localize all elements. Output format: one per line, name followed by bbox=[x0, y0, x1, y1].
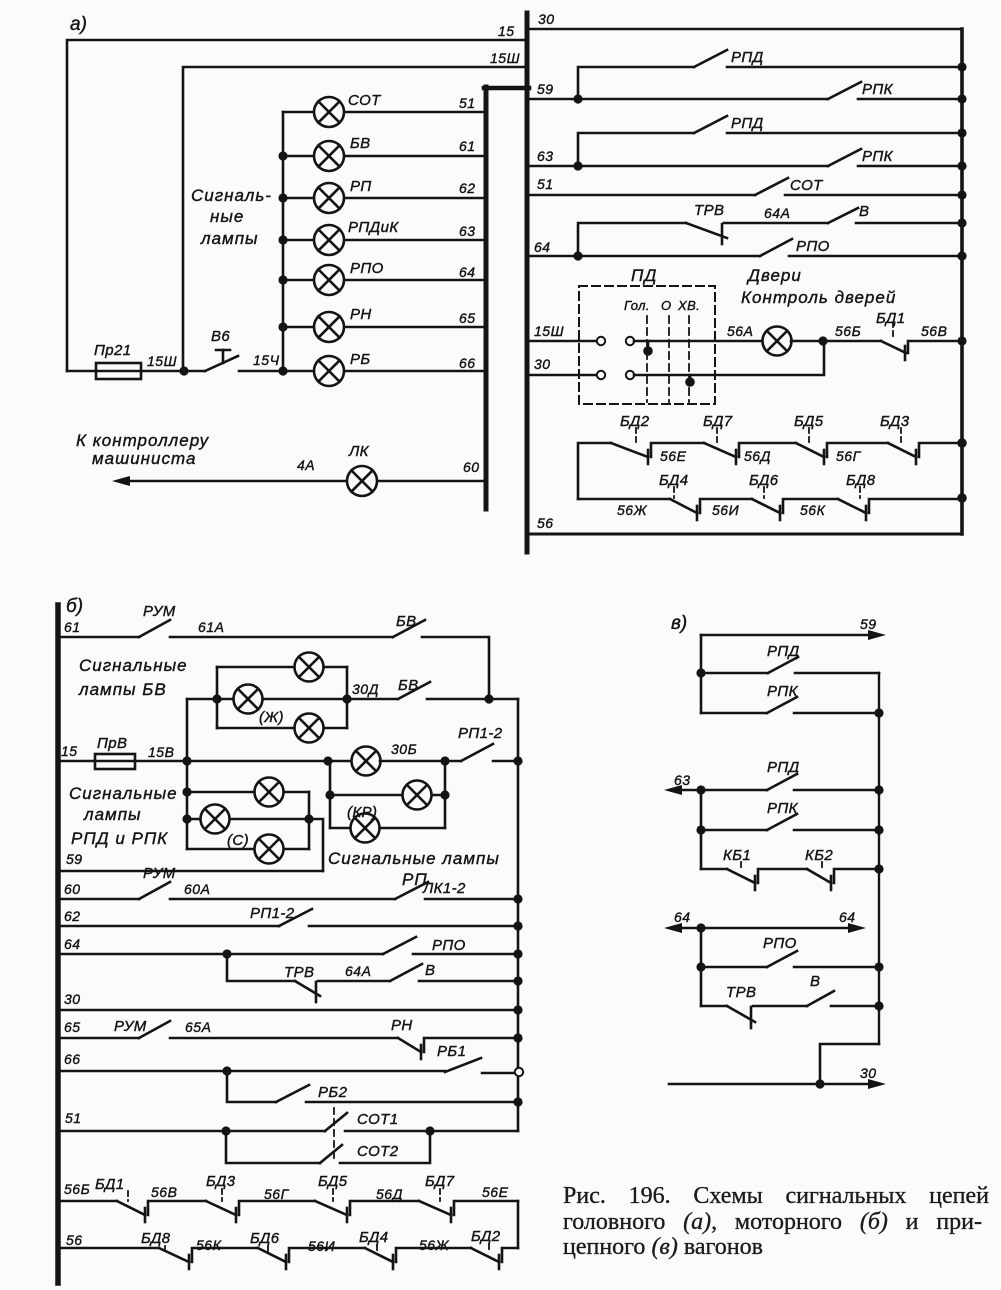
svg-text:62: 62 bbox=[459, 180, 476, 196]
svg-text:56Г: 56Г bbox=[836, 448, 862, 464]
contact БД7 blade bbox=[704, 443, 736, 457]
contact БД1 riser б bbox=[148, 1201, 206, 1215]
switch РПК blade bbox=[828, 82, 861, 99]
contact БД2 riser bbox=[502, 1248, 518, 1262]
wire РПД continuation 63 в bbox=[794, 789, 879, 792]
contact КБ2 blade bbox=[807, 869, 831, 883]
wire РП1-2 continuation bbox=[493, 760, 518, 763]
junction lamp bus row 65 bbox=[278, 322, 287, 331]
svg-text:БВ: БВ bbox=[350, 135, 371, 152]
wire lamp row 63 bbox=[283, 239, 486, 242]
junction rail 60 bbox=[513, 894, 522, 903]
right rail в bbox=[878, 673, 880, 1044]
switch РУМ blade 65 bbox=[139, 1021, 170, 1038]
svg-text:61: 61 bbox=[64, 619, 81, 635]
junction 63/РПД bbox=[573, 161, 582, 170]
lamp РП bbox=[314, 183, 344, 213]
leader БД6 bbox=[267, 1246, 269, 1253]
switch СОТ1 blade bbox=[325, 1113, 347, 1131]
switch В blade б bbox=[390, 964, 422, 981]
svg-text:СОТ2: СОТ2 bbox=[357, 1143, 399, 1160]
wire lamp row 62 bbox=[283, 197, 486, 200]
svg-text:РУМ: РУМ bbox=[143, 603, 176, 620]
svg-text:56А: 56А bbox=[727, 323, 753, 339]
svg-text:БД4: БД4 bbox=[359, 1229, 389, 1246]
contact ТРВ blade в bbox=[727, 1006, 755, 1022]
lamp С middle bbox=[201, 805, 230, 834]
svg-text:РПД: РПД bbox=[731, 115, 764, 132]
svg-text:30Б: 30Б bbox=[391, 741, 417, 757]
wire РПО row в bbox=[701, 966, 767, 969]
junction lamp bus row 62 bbox=[278, 193, 287, 202]
contact БД7 tick bbox=[735, 450, 738, 464]
contact БД7 tick bbox=[450, 1208, 453, 1222]
svg-text:30: 30 bbox=[64, 991, 81, 1007]
contact БД1 tick bbox=[904, 346, 907, 360]
junction rail В в bbox=[874, 1001, 883, 1010]
svg-text:БВ: БВ bbox=[398, 677, 419, 694]
junction С right middle bbox=[304, 814, 313, 823]
junction rail В bbox=[513, 976, 522, 985]
wire КР bottom bbox=[330, 827, 445, 830]
wire РПО continuation bbox=[789, 255, 962, 258]
switch РПД blade 2 bbox=[694, 116, 727, 133]
switch РПД blade 63 в bbox=[767, 774, 797, 790]
junction rail 65 bbox=[513, 1033, 522, 1042]
wire lamp row 64 bbox=[283, 279, 486, 282]
svg-text:В: В bbox=[859, 203, 869, 220]
wire РПК continuation bbox=[858, 98, 962, 101]
wire Ж bottom bbox=[217, 727, 347, 730]
contact КБ2 tick bbox=[830, 876, 833, 890]
svg-text:БД8: БД8 bbox=[141, 1230, 171, 1247]
svg-text:65А: 65А bbox=[185, 1019, 211, 1035]
leader БД3 bbox=[900, 428, 902, 442]
lamp РПДиК bbox=[314, 225, 344, 255]
svg-text:30: 30 bbox=[538, 11, 555, 27]
junction rail 63 в bbox=[874, 785, 883, 794]
wire lamp row 61 bbox=[283, 155, 486, 158]
contact БД2 tick bbox=[498, 1255, 501, 1269]
svg-text:ХВ.: ХВ. bbox=[677, 298, 700, 313]
arrow 64 right bbox=[848, 923, 866, 933]
svg-text:66: 66 bbox=[64, 1051, 81, 1067]
junction rail РБ2 bbox=[513, 1097, 522, 1106]
leader БД6 bbox=[763, 487, 765, 498]
wire 61А bbox=[170, 636, 393, 639]
svg-text:РПК: РПК bbox=[862, 81, 894, 98]
wire С top bbox=[187, 791, 309, 794]
junction rail РПО в bbox=[874, 962, 883, 971]
wire door row1 left bbox=[578, 443, 611, 499]
fuse Пр21 bbox=[96, 363, 141, 379]
svg-text:РН: РН bbox=[391, 1017, 413, 1034]
junction 63 в bbox=[696, 785, 705, 794]
contact БД5 tick bbox=[823, 450, 826, 464]
svg-text:(КР): (КР) bbox=[347, 804, 377, 821]
vertical 15В to Ж and С bbox=[186, 699, 189, 849]
wire РП1-2 continuation 62 bbox=[309, 925, 518, 928]
wire Ж top bbox=[217, 666, 347, 669]
contact БД3 riser bbox=[239, 1201, 315, 1215]
svg-text:БВ: БВ bbox=[396, 613, 417, 630]
bus 2 vertical thick bbox=[525, 13, 530, 552]
junction rail 30 bbox=[513, 1005, 522, 1014]
left link в top bbox=[700, 635, 703, 713]
switch РП1-2 blade 15В bbox=[461, 744, 493, 761]
switch РПК blade 2 в bbox=[767, 814, 797, 830]
contact БД5 riser bbox=[827, 443, 888, 457]
switch РПО blade в bbox=[767, 951, 797, 967]
svg-text:56В: 56В bbox=[921, 323, 947, 339]
wire 30Д bbox=[347, 698, 398, 701]
contact БД8 tick б bbox=[188, 1255, 191, 1269]
svg-text:59: 59 bbox=[537, 81, 554, 97]
svg-text:64: 64 bbox=[64, 936, 81, 952]
svg-text:О: О bbox=[661, 298, 672, 313]
svg-text:15Ш: 15Ш bbox=[534, 323, 564, 339]
svg-text:63: 63 bbox=[537, 148, 554, 164]
terminal circle 30 left bbox=[597, 371, 605, 379]
lamp КР middle bbox=[403, 781, 432, 810]
contact БД5 blade bbox=[315, 1201, 347, 1215]
junction 64/ТРВ bbox=[573, 251, 582, 260]
svg-text:15Ш: 15Ш bbox=[147, 353, 177, 369]
contact РН riser bbox=[424, 1038, 518, 1052]
switch РБ1 blade bbox=[445, 1058, 481, 1072]
switch СОТ2 blade bbox=[320, 1145, 342, 1163]
leader БД8 bbox=[164, 1246, 166, 1253]
lamp БВ bbox=[314, 141, 344, 171]
contact БД5 tick bbox=[346, 1208, 349, 1222]
wire 51 row bbox=[529, 194, 755, 197]
junction 51/СОТ2 bbox=[221, 1126, 230, 1135]
svg-text:РПО: РПО bbox=[350, 260, 384, 277]
svg-text:56В: 56В bbox=[151, 1184, 177, 1200]
contact БД1 blade bbox=[881, 341, 906, 353]
svg-text:РН: РН bbox=[350, 306, 372, 323]
terminal circle 15Ш left bbox=[597, 337, 605, 345]
svg-text:РПО: РПО bbox=[763, 935, 797, 952]
svg-text:ПД: ПД bbox=[631, 266, 657, 285]
wire ТРВ row в bbox=[701, 1005, 727, 1008]
wire 59 row bbox=[529, 98, 828, 101]
contact БД7 blade bbox=[419, 1201, 451, 1215]
wire С middle bbox=[187, 818, 309, 821]
svg-text:30: 30 bbox=[860, 1065, 877, 1081]
contact БД4 tick bbox=[696, 506, 699, 520]
svg-text:РП1-2: РП1-2 bbox=[458, 725, 503, 742]
wire СОТ continuation bbox=[785, 194, 962, 197]
svg-text:56: 56 bbox=[66, 1232, 83, 1248]
contact БД3 tick bbox=[915, 450, 918, 464]
lamp Ж top bbox=[295, 653, 324, 682]
contact ТРВ tick bbox=[721, 224, 724, 244]
svg-text:РПО: РПО bbox=[432, 937, 466, 954]
wire 63 row в bbox=[674, 789, 767, 792]
contact БД2 tick bbox=[647, 450, 650, 464]
right rail б vertical bbox=[517, 699, 520, 1131]
switch В blade в bbox=[807, 991, 834, 1006]
contact БД1 blade б bbox=[117, 1201, 145, 1215]
svg-text:63: 63 bbox=[459, 223, 476, 239]
switch РБ2 blade bbox=[276, 1085, 309, 1102]
junction 61/30Д bbox=[484, 694, 493, 703]
arrow to controller bbox=[112, 476, 130, 486]
terminal circle 15Ш right bbox=[626, 337, 634, 345]
junction КР left bbox=[323, 756, 332, 765]
junction right bus 64 bbox=[957, 251, 966, 260]
wire 65 row bbox=[60, 1037, 139, 1040]
contact РН tick bbox=[420, 1045, 423, 1059]
arrow 63 left bbox=[664, 785, 682, 795]
svg-text:ные: ные bbox=[210, 207, 244, 226]
junction 64/ТРВ bbox=[222, 949, 231, 958]
wire jog to 30 в bbox=[820, 1044, 879, 1084]
svg-text:БД6: БД6 bbox=[250, 1230, 280, 1247]
terminal circle 30 right bbox=[626, 371, 634, 379]
wire ТРВ branch bbox=[578, 223, 686, 256]
wire В continuation б bbox=[419, 980, 518, 983]
svg-text:ЛК1-2: ЛК1-2 bbox=[422, 880, 466, 897]
lamp СОТ bbox=[314, 97, 344, 127]
leader КБ2 bbox=[821, 862, 823, 869]
wire 64 row bbox=[529, 255, 760, 258]
wire 30Б to РП1-2 bbox=[380, 760, 461, 763]
wire РПК continuation 2 в bbox=[794, 829, 879, 832]
wire РПД continuation bbox=[727, 66, 962, 69]
wire 65А bbox=[170, 1037, 398, 1040]
contact dot Гол bbox=[647, 341, 650, 348]
svg-text:РБ1: РБ1 bbox=[437, 1043, 466, 1060]
svg-text:66: 66 bbox=[459, 355, 476, 371]
leader БД5 bbox=[808, 428, 810, 442]
svg-text:РПД: РПД bbox=[731, 49, 764, 66]
contact БД5 riser bbox=[350, 1201, 419, 1215]
svg-text:61: 61 bbox=[459, 138, 476, 154]
leader БД5 bbox=[332, 1189, 334, 1201]
svg-text:РПК: РПК bbox=[767, 683, 799, 700]
leader КБ1 bbox=[740, 862, 742, 869]
svg-text:а): а) bbox=[70, 14, 87, 35]
svg-text:64: 64 bbox=[459, 264, 476, 280]
wire 66 row bbox=[60, 1070, 445, 1073]
svg-text:56Ж: 56Ж bbox=[617, 502, 648, 518]
junction С left middle bbox=[182, 814, 191, 823]
svg-text:56Г: 56Г bbox=[264, 1186, 290, 1202]
lamp group Ж right rail bbox=[346, 667, 349, 728]
left link в bottom bbox=[700, 928, 703, 1006]
svg-text:ПрВ: ПрВ bbox=[97, 735, 127, 752]
contact БД2 blade bbox=[611, 443, 648, 457]
svg-text:ЛК: ЛК bbox=[348, 443, 370, 460]
svg-text:65: 65 bbox=[459, 310, 476, 326]
switch РПО blade bbox=[760, 239, 792, 256]
right link door rows bbox=[517, 1201, 520, 1248]
junction rail 62 bbox=[513, 921, 522, 930]
contact БД4 riser bbox=[700, 499, 752, 513]
wire РПО continuation в bbox=[794, 966, 879, 969]
junction РПК2 в bbox=[696, 825, 705, 834]
arrow 64 left bbox=[664, 923, 682, 933]
junction lamp bus row 64 bbox=[278, 275, 287, 284]
wire lamp row 66 bbox=[283, 370, 486, 373]
wire РПК2 row в bbox=[701, 829, 767, 832]
svg-text:РП: РП bbox=[350, 178, 372, 195]
svg-text:56Д: 56Д bbox=[376, 1186, 403, 1202]
junction lamp bus row 63 bbox=[278, 235, 287, 244]
contact БД8 blade bbox=[838, 499, 866, 513]
wire ЛК row bbox=[126, 480, 486, 483]
leader БД1 б bbox=[127, 1191, 129, 1201]
contact БД7 riser bbox=[454, 1201, 518, 1215]
junction rail КБ в bbox=[874, 864, 883, 873]
wire fuse row bbox=[67, 370, 205, 373]
svg-text:СОТ: СОТ bbox=[790, 177, 824, 194]
contact БД3 tick bbox=[235, 1208, 238, 1222]
svg-text:РПК: РПК bbox=[862, 148, 894, 165]
junction rail РПК2 в bbox=[874, 825, 883, 834]
junction 15В/лампы bbox=[182, 756, 191, 765]
wire 64 row bbox=[60, 953, 383, 956]
svg-text:Пр21: Пр21 bbox=[94, 342, 132, 359]
wire ТРВ branch б bbox=[227, 954, 295, 981]
caption line 1 bbox=[563, 1183, 989, 1209]
contact БД7 riser bbox=[739, 443, 796, 457]
wire 59 row bbox=[60, 870, 323, 873]
svg-text:Сигнальные лампы: Сигнальные лампы bbox=[328, 849, 500, 868]
lamp РПО bbox=[314, 265, 344, 295]
svg-text:15Ч: 15Ч bbox=[253, 352, 280, 368]
leader БД7 bbox=[716, 428, 718, 442]
wire РПК row в bbox=[701, 712, 767, 715]
svg-text:БД7: БД7 bbox=[425, 1173, 455, 1190]
contact БД8 riser б bbox=[192, 1248, 258, 1262]
svg-text:(С): (С) bbox=[227, 832, 249, 849]
junction right bus В bbox=[957, 218, 966, 227]
junction 15Ч bbox=[278, 366, 287, 375]
svg-text:62: 62 bbox=[64, 908, 81, 924]
switch РПК blade в bbox=[767, 697, 797, 713]
wire 30 top row bbox=[529, 28, 962, 31]
switch РПД blade bbox=[694, 50, 727, 67]
svg-text:61А: 61А bbox=[198, 619, 224, 635]
junction 64 в bbox=[696, 923, 705, 932]
contact БД4 riser bbox=[396, 1248, 471, 1262]
svg-text:15Ш: 15Ш bbox=[490, 50, 520, 66]
svg-text:В: В bbox=[810, 973, 820, 990]
switch РПК blade 2 bbox=[828, 149, 861, 166]
svg-text:4А: 4А bbox=[297, 457, 315, 473]
switch РП1-2 blade 62 bbox=[279, 909, 312, 926]
wire 56А bbox=[634, 340, 763, 343]
contact БД8 blade б bbox=[159, 1248, 189, 1262]
wire door row2 left bbox=[578, 498, 670, 501]
wire 15Ш (second feed) bbox=[183, 67, 527, 371]
contact dot ХВ bbox=[689, 375, 692, 379]
junction right bus row1 bbox=[957, 438, 967, 448]
lamp КР bottom bbox=[351, 814, 380, 843]
svg-text:лампы: лампы bbox=[200, 229, 259, 248]
lamp group КР left rail bbox=[329, 761, 332, 828]
wire door row2 б start bbox=[60, 1247, 159, 1250]
wire 64А б bbox=[318, 980, 390, 983]
svg-text:РБ2: РБ2 bbox=[318, 1084, 348, 1101]
lamp РБ bbox=[314, 356, 344, 386]
wire 51 row б bbox=[60, 1130, 325, 1133]
junction rail 64 bbox=[513, 949, 522, 958]
switch СОТ blade bbox=[755, 178, 788, 195]
contact ТРВ blade б bbox=[295, 981, 320, 996]
svg-text:лампы: лампы bbox=[83, 805, 142, 824]
svg-text:64: 64 bbox=[534, 239, 551, 255]
bus 1 vertical thick bbox=[484, 87, 489, 509]
lamp door control bbox=[763, 327, 792, 356]
svg-text:Сигнальные: Сигнальные bbox=[79, 656, 188, 675]
wire 15Ш stub bbox=[529, 340, 597, 343]
contact ТРВ tick б bbox=[315, 982, 318, 1002]
junction 30 в bbox=[815, 1079, 824, 1088]
wire РПД continuation 2 bbox=[727, 132, 962, 135]
svg-text:60А: 60А bbox=[184, 881, 210, 897]
svg-text:60: 60 bbox=[64, 881, 81, 897]
svg-text:Сигналь-: Сигналь- bbox=[191, 186, 272, 205]
svg-text:56Б: 56Б bbox=[64, 1181, 90, 1197]
switch РУМ blade 61 bbox=[139, 620, 170, 637]
junction right bus 63 bbox=[957, 161, 966, 170]
contact БД4 tick bbox=[392, 1255, 395, 1269]
contact БД6 riser bbox=[289, 1248, 365, 1262]
arrow 59 right bbox=[868, 630, 886, 640]
leader БД3 bbox=[221, 1189, 223, 1201]
svg-text:РПК: РПК bbox=[767, 800, 799, 817]
wire ЛК1-2 continuation bbox=[425, 898, 518, 901]
contact БД1 tick б bbox=[144, 1208, 147, 1222]
lamp ЛК bbox=[347, 466, 377, 496]
svg-text:15: 15 bbox=[498, 23, 515, 39]
svg-text:(Ж): (Ж) bbox=[259, 709, 284, 726]
lamp bus vertical bbox=[282, 112, 285, 371]
svg-text:64: 64 bbox=[839, 909, 856, 925]
svg-text:15В: 15В bbox=[148, 744, 174, 760]
wire lamp row 65 bbox=[283, 326, 486, 329]
svg-text:РПД: РПД bbox=[767, 759, 800, 776]
lamp С top bbox=[255, 778, 284, 807]
wire door row1 б start bbox=[60, 1200, 117, 1203]
svg-text:56И: 56И bbox=[308, 1238, 336, 1254]
lamp Ж middle bbox=[234, 685, 263, 714]
dashed position line ХВ bbox=[688, 316, 690, 402]
svg-text:БД3: БД3 bbox=[880, 413, 910, 430]
svg-text:РПД: РПД bbox=[767, 643, 800, 660]
svg-text:РПДиК: РПДиК bbox=[348, 219, 399, 236]
svg-text:Двери: Двери bbox=[746, 266, 802, 285]
junction Ж right 30Д bbox=[342, 694, 351, 703]
lamp 30Б bbox=[352, 747, 381, 776]
wire 30 to lamp return bbox=[634, 345, 824, 375]
switch БВ blade 30Д bbox=[398, 682, 430, 699]
svg-text:51: 51 bbox=[537, 176, 554, 192]
svg-text:БД3: БД3 bbox=[206, 1173, 236, 1190]
contact КБ2 riser bbox=[834, 869, 879, 883]
junction lamp bus row 61 bbox=[278, 151, 287, 160]
wire РПД lower branch bbox=[578, 133, 694, 166]
contact КБ1 riser bbox=[758, 869, 807, 883]
svg-text:56Б: 56Б bbox=[835, 323, 861, 339]
lamp Ж bottom bbox=[295, 714, 324, 743]
svg-text:56К: 56К bbox=[196, 1237, 222, 1253]
contact БД8 tick bbox=[865, 506, 868, 520]
